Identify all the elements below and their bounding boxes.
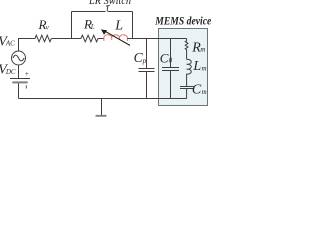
battery minus tick <box>25 85 27 88</box>
capacitor C_p <box>146 39 148 69</box>
resistor R_L <box>81 35 98 42</box>
MEMS device box <box>159 29 208 106</box>
capacitor C_0 <box>170 39 172 68</box>
arrow across L <box>106 32 130 46</box>
resistor R_m (vertical) <box>185 39 188 60</box>
capacitor C_m <box>180 86 194 88</box>
switch bypass top wire right segment <box>108 11 133 13</box>
ground <box>101 99 103 116</box>
svg-text:MEMS device: MEMS device <box>154 16 211 28</box>
switch bypass left vertical wire <box>71 12 73 39</box>
switch blade <box>106 6 109 11</box>
switch bypass top wire left segment <box>72 11 106 13</box>
svg-text:VAC: VAC <box>0 34 15 49</box>
svg-text:Cp: Cp <box>134 50 147 65</box>
svg-text:LR Switch: LR Switch <box>88 0 131 7</box>
wire R_v to R_L <box>51 38 81 40</box>
variable inductor L (red coil) <box>104 35 127 41</box>
inductor L_m (vertical coil) <box>187 59 192 86</box>
resistor R_v <box>35 35 51 42</box>
wire L to MEMS branch <box>127 38 186 40</box>
wire V_AC bottom to battery <box>18 65 20 79</box>
wire battery to bottom rail <box>18 83 20 98</box>
svg-text:L: L <box>114 19 123 34</box>
wire R_L to L <box>98 38 104 40</box>
svg-text:Rv: Rv <box>38 17 50 32</box>
bottom rail wire <box>19 98 187 100</box>
voltage source V_AC <box>12 51 26 65</box>
battery V_DC bottom plate <box>12 81 27 83</box>
switch bypass right vertical wire <box>132 12 134 39</box>
wire V_AC top to R_v <box>19 39 36 52</box>
battery V_DC top plate <box>10 78 30 80</box>
svg-text:RL: RL <box>83 17 95 32</box>
svg-text:+: + <box>25 69 29 78</box>
svg-text:VDC: VDC <box>0 63 16 78</box>
